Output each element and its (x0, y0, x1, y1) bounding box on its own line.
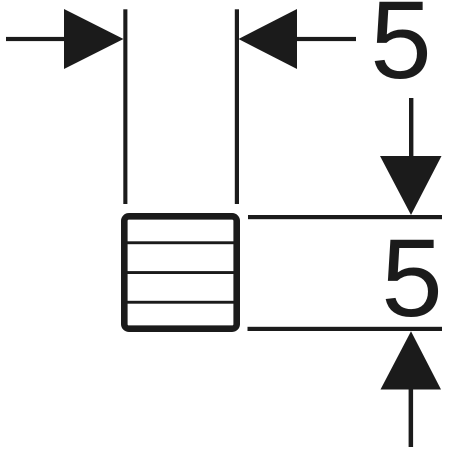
down dimension arrowhead (380, 156, 442, 215)
svg-text:5: 5 (381, 217, 442, 340)
square hatch line 1 (128, 241, 235, 244)
square hatch line 3 (128, 301, 235, 304)
upper height dimension line (248, 215, 442, 219)
square hatch line 2 (128, 271, 235, 274)
up dimension arrow tail (409, 389, 414, 447)
lower height dimension line (248, 327, 443, 331)
right dimension arrowhead (239, 9, 298, 69)
left extension line (123, 9, 127, 204)
right dimension arrow tail (297, 37, 357, 41)
left dimension arrowhead (64, 9, 124, 69)
up dimension arrowhead (381, 331, 442, 389)
right extension line (235, 9, 239, 204)
down dimension arrow tail (409, 98, 413, 156)
square body outline (124, 216, 236, 328)
left dimension arrow tail (6, 37, 65, 41)
svg-text:5: 5 (370, 0, 431, 102)
